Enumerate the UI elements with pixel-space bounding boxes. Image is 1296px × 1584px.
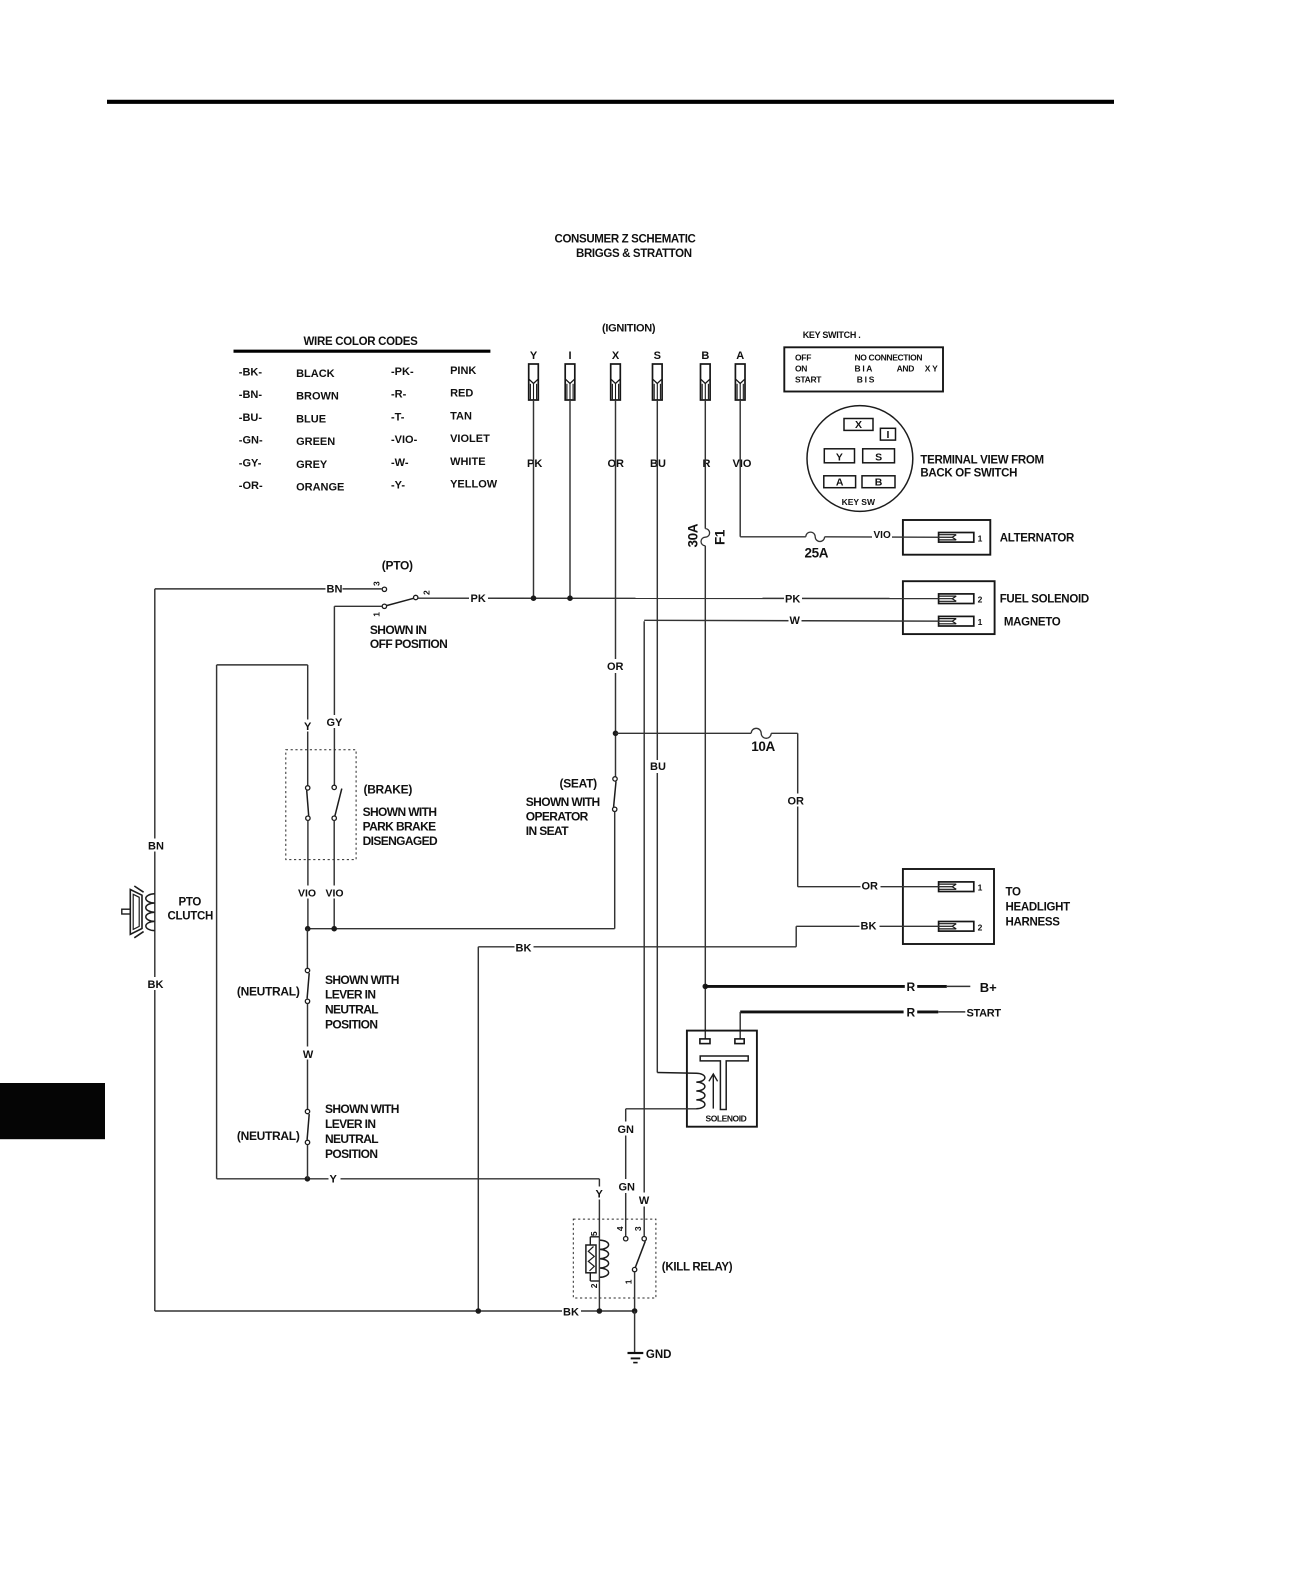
svg-text:BN: BN	[148, 841, 164, 853]
svg-text:(KILL RELAY): (KILL RELAY)	[662, 1262, 733, 1274]
svg-text:(BRAKE): (BRAKE)	[364, 783, 413, 797]
svg-text:Y: Y	[304, 721, 312, 733]
svg-text:OFF: OFF	[795, 352, 811, 362]
svg-text:1: 1	[978, 533, 983, 543]
svg-text:S: S	[654, 350, 661, 362]
svg-text:BU: BU	[650, 761, 666, 773]
svg-text:OR: OR	[862, 880, 879, 892]
svg-text:POSITION: POSITION	[325, 1018, 377, 1032]
svg-text:WIRE COLOR CODES: WIRE COLOR CODES	[304, 336, 419, 348]
svg-text:GN: GN	[619, 1182, 636, 1194]
svg-text:BROWN: BROWN	[296, 391, 339, 403]
svg-text:RED: RED	[450, 388, 473, 400]
svg-text:PK: PK	[785, 593, 800, 605]
svg-text:OFF POSITION: OFF POSITION	[370, 637, 447, 651]
svg-text:PINK: PINK	[450, 365, 476, 377]
svg-text:NO CONNECTION: NO CONNECTION	[855, 352, 923, 362]
svg-text:VIO: VIO	[733, 458, 752, 470]
svg-text:BRIGGS & STRATTON: BRIGGS & STRATTON	[576, 248, 692, 260]
svg-text:2: 2	[589, 1283, 599, 1288]
svg-text:BK: BK	[148, 979, 164, 991]
svg-text:X: X	[855, 419, 862, 431]
svg-text:START: START	[795, 374, 822, 384]
svg-text:(NEUTRAL): (NEUTRAL)	[237, 1129, 300, 1143]
svg-text:(IGNITION): (IGNITION)	[602, 323, 656, 335]
svg-text:GREEN: GREEN	[296, 436, 335, 448]
svg-text:KEY SWITCH .: KEY SWITCH .	[803, 330, 861, 340]
svg-text:NEUTRAL: NEUTRAL	[325, 1132, 378, 1146]
svg-text:-R-: -R-	[391, 389, 407, 401]
svg-text:25A: 25A	[805, 546, 829, 561]
svg-text:B I A: B I A	[855, 363, 873, 373]
svg-text:-VIO-: -VIO-	[391, 434, 418, 446]
svg-text:GND: GND	[646, 1349, 672, 1361]
svg-text:BLACK: BLACK	[296, 368, 335, 380]
svg-text:-BK-: -BK-	[239, 367, 263, 379]
svg-text:I: I	[568, 350, 571, 362]
svg-text:PARK BRAKE: PARK BRAKE	[363, 820, 437, 834]
svg-text:2: 2	[978, 922, 983, 932]
svg-text:W: W	[639, 1195, 650, 1207]
svg-text:CLUTCH: CLUTCH	[168, 911, 213, 923]
svg-text:GY: GY	[327, 717, 344, 729]
svg-text:W: W	[303, 1049, 314, 1061]
svg-text:VIO: VIO	[298, 888, 316, 900]
svg-text:DISENGAGED: DISENGAGED	[363, 834, 438, 848]
svg-text:3: 3	[372, 581, 382, 586]
svg-text:Y: Y	[530, 350, 538, 362]
svg-text:PK: PK	[471, 593, 486, 605]
svg-text:FUEL SOLENOID: FUEL SOLENOID	[1000, 594, 1089, 606]
svg-text:3: 3	[633, 1226, 643, 1231]
svg-text:R: R	[907, 1006, 916, 1020]
svg-text:PK: PK	[527, 458, 542, 470]
svg-text:-GN-: -GN-	[239, 435, 263, 447]
svg-text:A: A	[736, 350, 744, 362]
svg-text:F1: F1	[713, 529, 728, 545]
svg-text:ORANGE: ORANGE	[296, 482, 344, 494]
svg-text:BK: BK	[516, 942, 532, 954]
svg-text:1: 1	[978, 883, 983, 893]
svg-text:IN SEAT: IN SEAT	[526, 824, 569, 838]
svg-text:BK: BK	[861, 920, 877, 932]
svg-text:OPERATOR: OPERATOR	[526, 810, 589, 824]
svg-text:TAN: TAN	[450, 410, 472, 422]
svg-text:B: B	[701, 350, 709, 362]
svg-text:-W-: -W-	[391, 457, 409, 469]
svg-text:AND: AND	[897, 363, 915, 373]
svg-text:4: 4	[615, 1226, 625, 1231]
svg-text:TO: TO	[1006, 887, 1022, 899]
svg-text:Y: Y	[596, 1189, 604, 1201]
svg-text:HEADLIGHT: HEADLIGHT	[1006, 902, 1071, 914]
svg-text:PTO: PTO	[179, 897, 202, 909]
svg-text:B I S: B I S	[857, 374, 875, 384]
svg-text:W: W	[790, 615, 801, 627]
svg-text:CONSUMER Z SCHEMATIC: CONSUMER Z SCHEMATIC	[555, 233, 696, 245]
svg-text:TERMINAL VIEW FROM: TERMINAL VIEW FROM	[920, 455, 1043, 467]
svg-text:1: 1	[623, 1279, 633, 1284]
svg-text:YELLOW: YELLOW	[450, 479, 498, 491]
svg-text:OR: OR	[607, 661, 624, 673]
svg-text:(NEUTRAL): (NEUTRAL)	[237, 984, 300, 998]
svg-text:-OR-: -OR-	[239, 480, 263, 492]
svg-text:SHOWN IN: SHOWN IN	[370, 623, 426, 637]
svg-text:1: 1	[372, 612, 382, 617]
svg-text:BACK OF SWITCH: BACK OF SWITCH	[920, 468, 1017, 480]
svg-text:R: R	[907, 980, 916, 994]
svg-text:BN: BN	[327, 583, 343, 595]
svg-text:(SEAT): (SEAT)	[560, 777, 598, 791]
svg-text:-BN-: -BN-	[239, 389, 263, 401]
svg-text:VIO: VIO	[874, 530, 891, 541]
svg-text:A: A	[836, 477, 844, 489]
svg-text:1: 1	[978, 617, 983, 627]
svg-text:B+: B+	[980, 980, 997, 995]
svg-text:HARNESS: HARNESS	[1006, 917, 1061, 929]
svg-text:POSITION: POSITION	[325, 1147, 377, 1161]
svg-text:KEY SW: KEY SW	[842, 497, 876, 507]
svg-text:MAGNETO: MAGNETO	[1004, 617, 1061, 629]
svg-text:SOLENOID: SOLENOID	[706, 1113, 747, 1123]
svg-text:LEVER IN: LEVER IN	[325, 1117, 375, 1131]
svg-text:GREY: GREY	[296, 459, 328, 471]
svg-text:BK: BK	[563, 1307, 579, 1319]
svg-text:R: R	[703, 458, 711, 470]
svg-text:VIOLET: VIOLET	[450, 433, 490, 445]
svg-text:X: X	[612, 350, 620, 362]
svg-text:2: 2	[978, 595, 983, 605]
svg-text:-BU-: -BU-	[239, 412, 263, 424]
svg-text:SHOWN WITH: SHOWN WITH	[325, 973, 399, 987]
svg-text:-Y-: -Y-	[391, 480, 405, 492]
svg-text:VIO: VIO	[326, 888, 344, 900]
svg-text:10A: 10A	[751, 739, 775, 754]
svg-text:ALTERNATOR: ALTERNATOR	[1000, 532, 1075, 544]
svg-text:-GY-: -GY-	[239, 457, 262, 469]
svg-text:-PK-: -PK-	[391, 366, 414, 378]
svg-text:LEVER IN: LEVER IN	[325, 988, 375, 1002]
svg-text:S: S	[875, 452, 882, 464]
svg-text:Y: Y	[836, 452, 843, 464]
svg-text:BLUE: BLUE	[296, 413, 326, 425]
svg-text:ON: ON	[795, 363, 807, 373]
svg-text:2: 2	[422, 590, 432, 595]
svg-text:SHOWN WITH: SHOWN WITH	[363, 805, 437, 819]
svg-text:(PTO): (PTO)	[382, 559, 413, 573]
svg-text:START: START	[967, 1007, 1002, 1019]
svg-text:30A: 30A	[685, 523, 700, 547]
svg-text:OR: OR	[788, 795, 805, 807]
svg-text:SHOWN WITH: SHOWN WITH	[325, 1102, 399, 1116]
svg-text:Y: Y	[330, 1173, 338, 1185]
svg-text:NEUTRAL: NEUTRAL	[325, 1003, 378, 1017]
svg-text:X Y: X Y	[925, 363, 938, 373]
svg-text:5: 5	[589, 1231, 599, 1236]
svg-text:I: I	[886, 429, 889, 441]
svg-text:-T-: -T-	[391, 411, 405, 423]
svg-text:WHITE: WHITE	[450, 456, 485, 468]
svg-text:SHOWN WITH: SHOWN WITH	[526, 795, 600, 809]
svg-text:GN: GN	[618, 1124, 635, 1136]
svg-text:B: B	[875, 477, 883, 489]
